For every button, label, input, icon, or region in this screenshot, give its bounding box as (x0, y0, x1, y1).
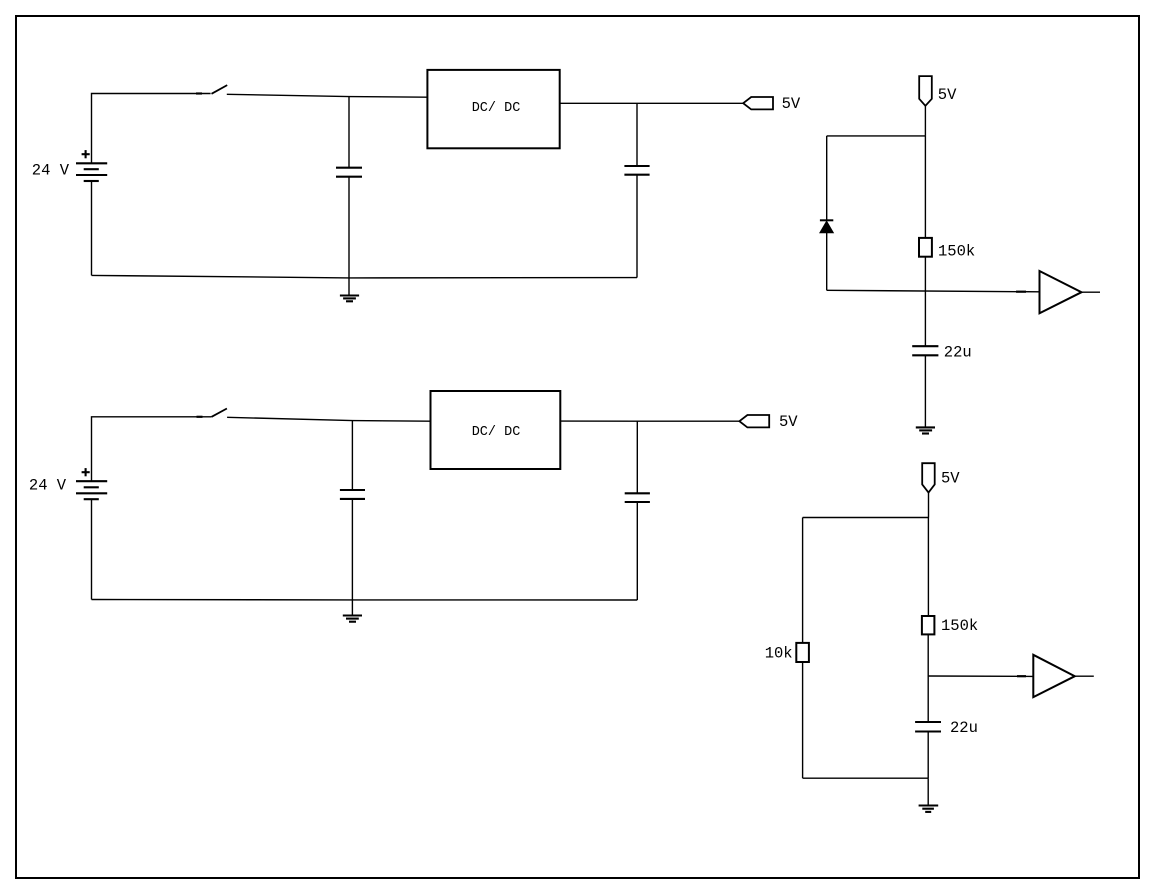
svg-text:22u: 22u (950, 719, 978, 737)
wire battery B1 minus down (91, 181, 93, 275)
power flag 5V vertical (919, 76, 932, 106)
resistor R3 150k (922, 616, 935, 634)
resistor R1 150k (919, 238, 932, 257)
wire resistor R2 down to bottom rail (802, 662, 804, 778)
wire switch S1 to node A to U1 input (227, 94, 428, 97)
power flag 5V net (739, 415, 769, 427)
wire node B down to capacitor C2 (636, 103, 638, 166)
power flag 5V net (743, 97, 773, 109)
wire flag to node C (924, 106, 926, 136)
capacitor C3 22u (912, 346, 938, 355)
svg-text:5V: 5V (782, 95, 801, 113)
wire joint tick (196, 92, 202, 94)
op-amp buffer U2 (1040, 271, 1101, 313)
DC/DC converter U1 (427, 70, 559, 148)
wire capacitor C5 down to ground rail (636, 502, 638, 600)
capacitor C5 (625, 493, 650, 502)
pin stub buffer U2 input (1016, 291, 1026, 293)
svg-text:5V: 5V (779, 413, 798, 431)
wire node H to buffer U4 input (928, 675, 1033, 677)
wire down to resistor R2 (802, 518, 804, 643)
svg-text:DC/ DC: DC/ DC (472, 101, 521, 116)
svg-text:150k: 150k (938, 242, 975, 260)
wire down to diode D1 cathode (826, 136, 828, 220)
svg-text:24 V: 24 V (32, 161, 70, 179)
capacitor C4 (340, 490, 365, 499)
wire resistor R1 through node D to capacitor C3 (924, 257, 926, 347)
battery B1 24V (76, 150, 107, 181)
DC/DC converter U3 (431, 391, 561, 469)
switch S1 blade (212, 85, 228, 94)
capacitor C2 (624, 166, 649, 175)
diode D1 (820, 220, 833, 233)
wire battery B1 plus to switch S1 (92, 94, 211, 164)
wire U1 output to 5V flag (560, 102, 744, 104)
wire diode D1 anode down (826, 233, 828, 290)
svg-text:150k: 150k (941, 617, 978, 635)
wire node C down to resistor R1 (924, 136, 926, 238)
wire capacitor C3 to ground (924, 355, 926, 427)
wire battery B2 minus down (91, 499, 93, 599)
capacitor C6 22u (915, 722, 941, 732)
svg-text:DC/ DC: DC/ DC (472, 425, 521, 440)
svg-text:5V: 5V (938, 86, 957, 104)
op-amp buffer U4 (1033, 655, 1094, 697)
wire capacitor C4 to ground rail (351, 499, 353, 600)
wire node C left branch top (827, 135, 926, 137)
ground GND2 (916, 427, 935, 433)
wire node G left branch top (803, 517, 929, 519)
capacitor C1 (336, 168, 362, 177)
wire bottom rail circuit 4 (803, 777, 929, 779)
wire resistor R3 through node H to capacitor C6 (927, 634, 929, 722)
wire capacitor C6 to bottom rail (927, 732, 929, 779)
pin stub buffer U4 input (1017, 675, 1026, 677)
wire ground rail circuit 3 (92, 599, 638, 602)
wire capacitor C2 down to ground rail (636, 175, 638, 278)
wire switch S2 to node E to U3 input (227, 417, 430, 421)
wire battery B2 plus to switch S2 (92, 417, 212, 481)
wire node D to buffer U2 input (827, 290, 1040, 292)
svg-text:10k: 10k (765, 644, 793, 662)
svg-text:5V: 5V (941, 469, 960, 487)
resistor R2 10k (796, 643, 809, 662)
ground GND1 (340, 278, 359, 301)
wire flag to node G (928, 493, 930, 518)
wire capacitor C1 to ground rail (348, 177, 350, 278)
wire ground rail circuit 1 (92, 275, 638, 278)
switch S2 blade (212, 409, 227, 417)
wire node A down to capacitor C1 (348, 97, 350, 168)
wire node G down to resistor R3 (927, 518, 929, 617)
battery B2 24V (76, 468, 107, 499)
ground GND3 (343, 600, 362, 622)
svg-text:24 V: 24 V (29, 477, 67, 495)
svg-text:22u: 22u (944, 343, 972, 361)
ground GND4 (919, 778, 939, 812)
power flag 5V vertical (922, 463, 935, 492)
wire node E down to capacitor C4 (351, 421, 353, 490)
wire node F down to capacitor C5 (636, 421, 638, 493)
wire joint tick (197, 416, 203, 418)
wire U3 output to 5V flag (561, 420, 739, 422)
